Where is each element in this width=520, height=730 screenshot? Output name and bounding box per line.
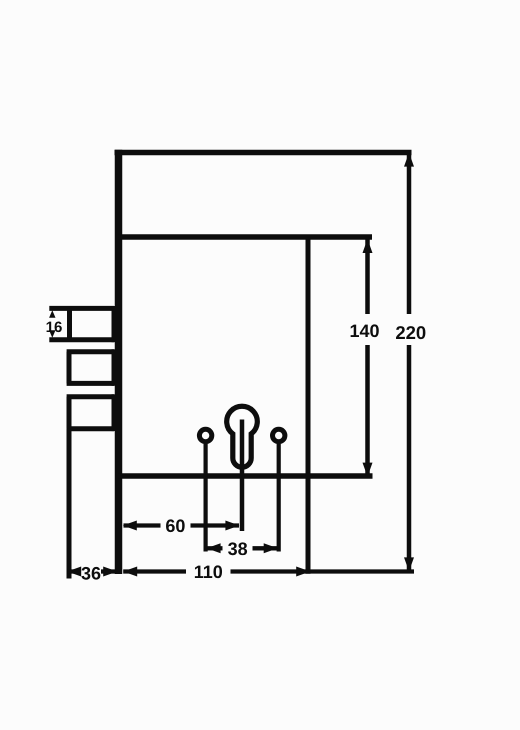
dimension 38 arrows	[207, 543, 278, 553]
dimension 140 line	[365, 240, 370, 477]
svg-text:220: 220	[395, 322, 426, 343]
keyhole euro cylinder profile	[227, 406, 258, 467]
svg-text:110: 110	[194, 562, 223, 582]
hole right centerline	[277, 444, 281, 552]
handle hole right	[273, 429, 285, 441]
dimension 220 line	[407, 154, 412, 570]
top extension line	[115, 150, 412, 156]
svg-text:36: 36	[81, 563, 101, 583]
dimension 38 line	[207, 546, 278, 550]
dimension 60 line	[124, 523, 240, 527]
svg-text:140: 140	[349, 321, 379, 341]
bolt box lower	[67, 394, 114, 431]
handle hole left	[199, 429, 211, 441]
hole left centerline	[204, 444, 208, 552]
svg-text:60: 60	[165, 516, 185, 536]
lock body bottom edge	[118, 473, 373, 479]
faceplate front line	[115, 150, 123, 574]
dimension 60 arrows	[123, 521, 240, 531]
svg-text:38: 38	[228, 539, 248, 559]
dimension 16 arrows	[49, 310, 55, 338]
dimension 110 line	[123, 569, 414, 573]
bolt box middle	[67, 349, 114, 386]
dimension 220 arrows	[404, 153, 414, 572]
keyhole centerline	[240, 420, 245, 532]
lock body top edge	[118, 234, 372, 240]
latch box (16mm)	[49, 306, 114, 342]
svg-text:16: 16	[46, 319, 63, 336]
dimension 36 arrows	[67, 567, 117, 577]
dimension 36 line	[67, 569, 117, 573]
dimension 110 arrows	[123, 567, 310, 577]
faceplate left edge lower extension	[67, 429, 72, 579]
lock body right edge	[306, 235, 311, 574]
dimension 140 arrows	[363, 239, 373, 477]
